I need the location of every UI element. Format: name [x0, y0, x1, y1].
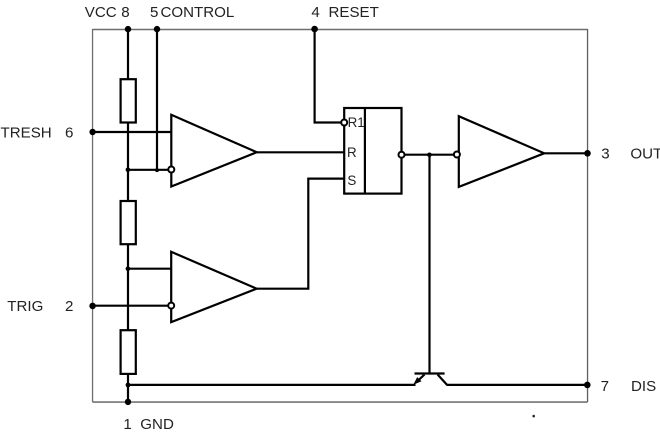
svg-text:R: R	[347, 145, 357, 160]
node output junction dot	[427, 153, 432, 158]
node CONTROL junction dot on top border	[154, 26, 160, 32]
wire buffer output to OUT pin	[544, 152, 587, 154]
svg-text:TRESH: TRESH	[1, 125, 52, 142]
svg-text:6: 6	[65, 125, 73, 142]
svg-text:5: 5	[150, 4, 158, 21]
output buffer amplifier triangle	[459, 116, 544, 187]
wire VCC vertical from top border to R divider	[127, 29, 129, 80]
svg-text:DIS: DIS	[631, 378, 656, 395]
node divider/control junction dot	[126, 168, 131, 173]
transistor Q1 collector	[438, 375, 447, 385]
node RESET junction dot on top border	[311, 26, 318, 33]
wire divider segment RC to bottom border (GND)	[127, 374, 129, 402]
flip-flop inner divider line	[364, 108, 366, 194]
inverting input bubble of comparator 2	[168, 303, 174, 309]
wire TRESH pin horizontal to comparator 1	[93, 131, 172, 133]
svg-text:GND: GND	[140, 416, 174, 433]
node DIS pin dot	[584, 382, 591, 389]
svg-text:2: 2	[65, 298, 73, 315]
node TRESH pin dot	[89, 129, 95, 135]
wire DIS rail left segment	[128, 384, 416, 386]
op-amp comparator 1 (threshold)	[171, 115, 256, 187]
wire junction down to discharge transistor base	[428, 155, 430, 374]
flip-flop output bubble	[399, 152, 405, 158]
wire flip-flop output to buffer input	[404, 154, 454, 156]
buffer input bubble	[454, 152, 460, 158]
svg-text:1: 1	[123, 416, 131, 433]
svg-text:8: 8	[121, 4, 129, 21]
wire CONTROL vertical from top border	[156, 29, 158, 171]
wire divider node to comparator 2 non-inverting input	[127, 268, 171, 270]
svg-text:TRIG: TRIG	[7, 298, 43, 315]
svg-text:4: 4	[311, 4, 319, 21]
flip-flop U1 box	[344, 108, 401, 194]
wire TRIG pin horizontal to comparator 2 inverting bubble	[93, 305, 168, 307]
svg-text:3: 3	[601, 146, 609, 163]
wire divider segment RB to RC	[127, 244, 129, 331]
resistor RC (bottom of divider)	[121, 330, 136, 374]
svg-text:7: 7	[601, 378, 609, 395]
svg-text:RESET: RESET	[329, 4, 379, 21]
node VCC junction dot on top border	[125, 26, 131, 32]
wire DIS rail right segment	[446, 384, 587, 386]
inverting input bubble of comparator 1	[168, 167, 174, 173]
node divider/comparator-2 junction dot	[126, 266, 131, 271]
resistor RA (top of divider)	[121, 79, 136, 122]
svg-text:S: S	[347, 173, 356, 188]
svg-text:VCC: VCC	[85, 4, 117, 21]
svg-text:R1: R1	[348, 115, 365, 130]
wire divider segment RA to RB	[127, 123, 129, 203]
svg-text:OUT: OUT	[630, 146, 660, 163]
pin bubble R1 (reset input)	[341, 120, 347, 126]
IC package boundary	[93, 29, 588, 31]
node TRIG pin dot	[89, 303, 96, 310]
node GND pin dot on bottom border	[125, 399, 131, 405]
resistor RB (middle of divider)	[121, 201, 136, 244]
node OUT pin dot	[584, 150, 591, 157]
svg-text:CONTROL: CONTROL	[161, 4, 235, 21]
op-amp comparator 2 (trigger)	[171, 252, 257, 322]
stray speck near bottom	[532, 415, 535, 418]
node divider/DIS junction dot	[126, 383, 131, 388]
wire RESET vertical and horizontal to R1 bubble	[315, 29, 341, 122]
node control line end dot	[155, 168, 159, 172]
wire comparator 2 output to flip-flop S input	[257, 179, 345, 289]
wire comparator 1 output to flip-flop R input	[257, 151, 345, 153]
transistor Q1 emitter with arrow	[416, 375, 425, 383]
transistor Q1 base bar	[415, 372, 445, 374]
wire control node horizontal to comparator 1 inverting input	[127, 169, 168, 171]
